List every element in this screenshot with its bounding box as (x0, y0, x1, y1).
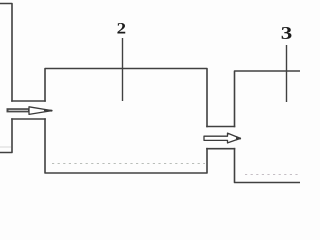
level line tank 2 (52, 163, 205, 165)
duct 1 bottom wall (12, 118, 45, 120)
flow arrow pipe1 tip (44, 109, 52, 111)
flow arrow pipe2 (204, 133, 241, 143)
node 2 leader line (122, 38, 124, 101)
node 3 leader line (286, 45, 288, 102)
duct 2 top wall (vessel 2 to vessel 3) (207, 126, 235, 128)
vessel 1 (cut off at left): top edge and right wall upper section (0, 4, 12, 102)
vessel 3 (cut off at right): left wall upper and top edge (235, 71, 307, 127)
flow arrow pipe2 tip (236, 137, 241, 139)
svg-text:3: 3 (281, 24, 293, 43)
level line tank 1 (0, 146, 11, 148)
svg-text:2: 2 (117, 19, 126, 37)
vessel 2: left wall lower, bottom edge, right wall lower (45, 119, 207, 173)
vessel 3: left wall lower and bottom edge (235, 149, 307, 183)
duct 2 bottom wall (207, 148, 235, 150)
duct 1 top wall (vessel 1 to vessel 2) (12, 100, 45, 102)
vessel 1: bottom edge and right wall lower section (0, 119, 12, 153)
vessel 2: left wall upper, top edge, right wall upper (45, 69, 207, 127)
level line tank 3 (245, 174, 300, 176)
flow arrow pipe1 (7, 108, 31, 112)
